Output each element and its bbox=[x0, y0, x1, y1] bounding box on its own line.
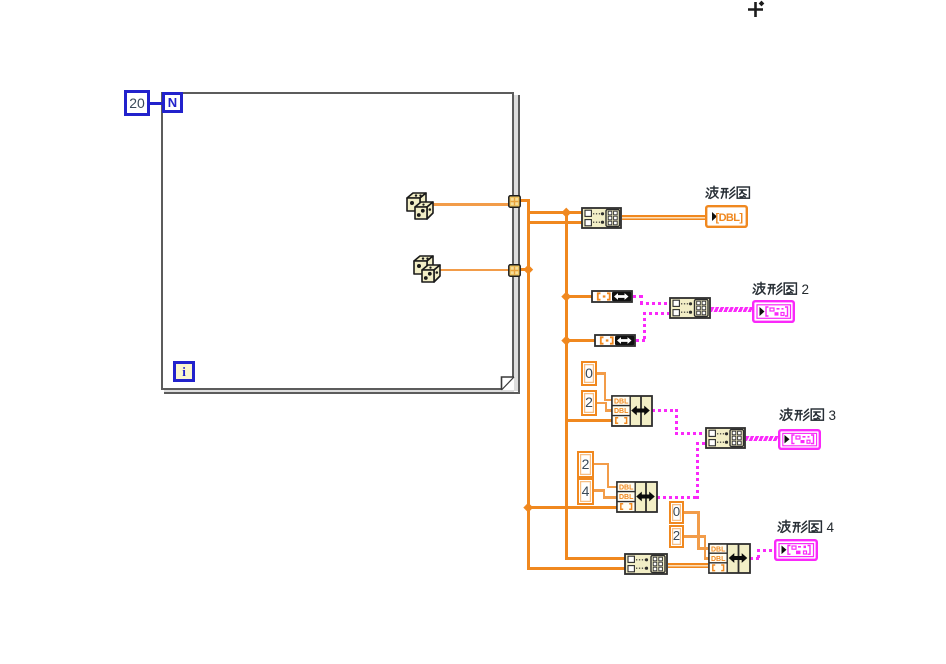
junction diamond at (566,212) bbox=[561, 207, 570, 216]
for-loop shadow right dark bbox=[518, 95, 521, 394]
wire c3node1 out to build-array2 in1 (pink dotted) bbox=[633, 295, 643, 298]
wire const2b to bundle24 in1 bbox=[594, 463, 609, 466]
svg-text:DBL: DBL bbox=[619, 485, 634, 492]
wire const2 to bundle02 in2 bbox=[597, 402, 606, 405]
wire const0 to bundle02 in1 bbox=[597, 372, 606, 375]
label waveform chart 2 bbox=[752, 281, 818, 297]
wire branch y340 to c3node2 bbox=[565, 339, 596, 342]
junction diamond at (528,507) bbox=[523, 502, 532, 511]
wire const4 to bundle24 in2 bbox=[594, 489, 605, 492]
bundle B24 bbox=[616, 481, 658, 513]
shared glyphs for chinese label (wave-form-chart) bbox=[0, 0, 1, 1]
build-array BA1 bbox=[581, 207, 622, 229]
build-array BA3 bbox=[705, 427, 746, 449]
constant 4 (bundle24) bbox=[577, 478, 594, 505]
wire build-array2 out to indicator2 (pink hatched) bbox=[711, 307, 753, 312]
array-to-cluster node C2 bbox=[594, 334, 636, 347]
wire branch y507 to bundle24 in3 bbox=[527, 506, 618, 509]
wire build-array1 out to indicator1 bbox=[622, 215, 706, 221]
label waveform chart 4 bbox=[777, 519, 843, 535]
build-array BA2 bbox=[669, 297, 711, 319]
wire tunnel1 exit bbox=[520, 199, 530, 202]
svg-text:4: 4 bbox=[827, 520, 835, 535]
constant 20 bbox=[124, 90, 150, 116]
label waveform chart 1 bbox=[705, 185, 755, 201]
wire branch y296 to c3node1 bbox=[565, 295, 593, 298]
constant 2 (bundle4) bbox=[669, 525, 684, 548]
junction diamond at (566,296) bbox=[561, 291, 570, 300]
junction diamond at (528,269) bbox=[523, 264, 532, 273]
loop count terminal N bbox=[162, 92, 183, 113]
for-loop shadow bottom light bbox=[164, 390, 514, 392]
wire branch y420 to bundle02 in3 bbox=[565, 419, 613, 422]
wire bundle24 out to build-array3 in2 (pink dotted) bbox=[657, 496, 699, 499]
iteration terminal i bbox=[173, 361, 195, 382]
wire branch y558 to bottom build-array in1 bbox=[565, 557, 626, 560]
build-array BA4 bottom bbox=[624, 553, 668, 575]
label waveform chart 3 bbox=[779, 407, 845, 423]
for-loop frame bbox=[161, 92, 514, 390]
constant 2 (bundle24) bbox=[577, 451, 594, 478]
wire bundle4 out to indicator4 (pink dotted) bbox=[750, 557, 760, 560]
dice icon 1 (random number) bbox=[404, 190, 434, 221]
for-loop shadow right light bbox=[514, 95, 518, 391]
wire dice1 to tunnel1 bbox=[431, 203, 509, 206]
dice icon 2 (random number) bbox=[411, 253, 441, 284]
tunnel T2 bbox=[508, 264, 521, 277]
wire const0b to bundle4 in1 bbox=[684, 511, 700, 514]
svg-text:DBL: DBL bbox=[711, 546, 726, 553]
wire bottom build-array out 2D to bundle4 in3 bbox=[668, 563, 708, 569]
indicator waveform chart 4 bbox=[774, 539, 818, 561]
wire c3node2 out to build-array2 in2 (pink dotted) bbox=[636, 339, 646, 342]
tunnel T1 bbox=[508, 195, 521, 208]
wire vertical B bbox=[565, 211, 568, 561]
wire tunnel2 exit bbox=[520, 268, 530, 271]
wire branch y212 to build-array1 in1 bbox=[527, 211, 583, 214]
indicator waveform chart 3 bbox=[778, 429, 821, 450]
indicator waveform chart 2 bbox=[752, 300, 795, 323]
svg-text:DBL: DBL bbox=[711, 556, 726, 563]
constant 0 (bundle4) bbox=[669, 501, 684, 524]
wire branch y222 to build-array1 in2 bbox=[527, 221, 583, 224]
for-loop shadow bottom dark bbox=[164, 392, 520, 395]
bundle B4 bbox=[708, 543, 751, 574]
wire 20 to N bbox=[150, 102, 162, 105]
junction diamond at (566,340) bbox=[561, 336, 570, 345]
wire branch y568 to bottom build-array in2 bbox=[527, 567, 626, 570]
array-to-cluster node C1 bbox=[591, 290, 633, 303]
wire dice2 to tunnel2 bbox=[438, 269, 509, 272]
bundle B02 bbox=[611, 395, 653, 427]
svg-text:DBL: DBL bbox=[614, 408, 629, 415]
constant 2 (bundle02) bbox=[581, 390, 597, 416]
constant 0 (bundle02) bbox=[581, 361, 597, 386]
svg-text:[DBL]: [DBL] bbox=[716, 212, 744, 224]
wire vertical A bbox=[527, 199, 530, 571]
svg-text:2: 2 bbox=[802, 282, 810, 297]
svg-text:DBL: DBL bbox=[619, 494, 634, 501]
wire const2c to bundle4 in2 bbox=[684, 535, 706, 538]
svg-text:3: 3 bbox=[829, 408, 837, 423]
indicator waveform chart 1 [DBL] bbox=[705, 205, 748, 228]
wire build-array3 out to indicator3 (pink hatched) bbox=[746, 436, 779, 441]
wire bundle02 out to build-array3 in1 (pink dotted) bbox=[652, 409, 678, 412]
loop resize fold corner bbox=[500, 376, 516, 392]
svg-text:DBL: DBL bbox=[614, 399, 629, 406]
cursor plus bbox=[744, 0, 768, 22]
